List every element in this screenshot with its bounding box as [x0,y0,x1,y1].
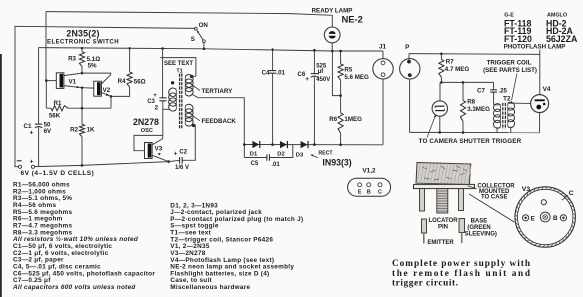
label R4 56ohm [118,78,146,85]
svg-text:V3: V3 [155,145,163,152]
wire V1 emitter to V2 base [82,87,94,89]
svg-text:R6: R6 [329,116,337,123]
wire battery-positive riser with C1 [38,48,40,167]
svg-text:D1: D1 [250,152,258,158]
jack J1 [373,51,393,145]
resistor R3 [79,47,84,73]
svg-text:G-E: G-E [504,12,514,18]
capacitor C4 [269,48,276,144]
pointer tertiary [189,83,201,91]
svg-text:R4: R4 [118,78,126,85]
svg-text:PHOTOFLASH LAMP: PHOTOFLASH LAMP [504,43,566,50]
neon trigger lamp [432,82,447,132]
label V3 oscillator [155,145,163,152]
svg-text:All capacitors 600 volts unles: All capacitors 600 volts unless noted [12,284,136,291]
neon lamp NE-2 [324,15,340,51]
svg-text:6V: 6V [44,128,52,135]
wire V2 emitter down [110,96,112,108]
svg-text:NE-2: NE-2 [342,14,363,25]
label SEE TEXT [164,61,193,67]
svg-text:(GREEN: (GREEN [467,225,490,231]
svg-text:E: E [358,190,362,196]
wire left battery-negative rail [15,26,194,166]
svg-text:PIN: PIN [438,225,448,231]
svg-text:FEEDBACK: FEEDBACK [202,118,237,125]
power transistor mounting flange [414,184,475,188]
svg-text:1/6 V: 1/6 V [175,165,189,171]
wire bottom battery bus [35,162,169,167]
label R7 4.7 MEG [445,58,470,73]
svg-text:+: + [30,158,34,165]
svg-text:SLEEVING): SLEEVING) [465,232,497,238]
base pin detail [459,219,465,244]
label BASE GREEN SLEEVING [465,219,497,238]
svg-text:B: B [367,190,371,196]
svg-text:R8: R8 [467,98,475,105]
diode D2 [280,141,287,148]
svg-text:TERTIARY: TERTIARY [202,88,234,95]
svg-text:All resistors ½-watt 10% unles: All resistors ½-watt 10% unless noted [12,235,139,243]
resistor R8 [460,81,465,134]
V3 bottom view case circle [515,187,575,247]
svg-text:AMGLO: AMGLO [547,12,567,18]
pointer to trigger contact [427,115,436,138]
label RECT [318,151,333,157]
label EMITTER [427,240,454,246]
capacitor C3 [159,98,166,101]
resistor R4 [110,47,133,98]
svg-text:(SEE PARTS LIST): (SEE PARTS LIST) [483,67,537,74]
label T1 [176,69,182,75]
resistor R6 [338,96,343,146]
label R1 56K [49,100,62,120]
label C1 50 6V + [24,122,53,137]
socket pin B [367,183,371,196]
svg-text:E: E [531,215,536,222]
transistor V1 [46,73,82,89]
wire V1 base drop from top rail [45,12,47,81]
pointer trigger coil [511,74,517,104]
label TO CAMERA SHUTTER TRIGGER [419,138,522,145]
svg-text:D3: D3 [296,153,304,159]
node V3 emitter junction [167,160,170,163]
transformer T1 phasing dot feedback [192,124,195,127]
label C6 525uf 450V + [297,64,330,84]
caption line 3 [392,278,458,288]
label SEE PARTS LIST [483,67,537,74]
caption line 1 [392,259,531,269]
svg-text:56K: 56K [49,113,61,120]
svg-text:5.6 MEG: 5.6 MEG [344,74,369,81]
power transistor case body [416,163,471,185]
label TERTIARY [202,88,234,95]
svg-text:2N35(2): 2N35(2) [66,28,99,38]
diode D1 [252,141,259,148]
svg-text:C7: C7 [477,88,485,95]
wire remote top rail [409,53,540,56]
wire rectifier bus [243,143,383,146]
label C2 + 1/6V [174,150,189,171]
V3 bottom view emitter pin [523,215,536,223]
V3 bottom view base pin [553,215,567,223]
transistor V3 [134,135,169,161]
power transistor left pin [420,189,425,211]
flash lamp V4 [531,50,549,133]
diode D3 [301,141,308,148]
svg-text:.25: .25 [498,88,507,95]
label FT-120 56J2ZA [504,34,578,44]
svg-text:C: C [569,190,574,197]
svg-text:R1: R1 [54,100,62,107]
battery terminal + (plus) [30,158,35,168]
pointer collector to case [468,186,477,189]
label D1 [250,152,258,158]
svg-text:V2: V2 [103,87,111,94]
transformer T1 feedback winding [185,104,193,126]
label R6 1MEG [329,116,362,123]
wire V1 emitter down to R1 line [81,87,83,109]
svg-text:TO CAMERA SHUTTER TRIGGER: TO CAMERA SHUTTER TRIGGER [419,138,522,145]
label C collector [562,190,574,200]
svg-text:+: + [29,130,33,137]
svg-text:B: B [553,215,558,222]
node R1/R2 junction [81,107,84,110]
label COLLECTOR MOUNTED TO CASE [477,183,515,200]
transformer T1 primary winding [169,88,177,111]
svg-text:Complete power supply with: Complete power supply with [392,259,531,269]
power transistor right pin [459,189,464,211]
node switch to rail [203,48,206,51]
trigger coil T2 primary winding [494,104,501,133]
svg-text:ON: ON [199,22,209,29]
node R5/R6 junction [339,94,342,97]
node C4 junction [271,143,274,146]
capacitor C1 [35,124,42,128]
resistor R5 [338,50,343,96]
emitter pin detail [422,219,427,244]
pointer to V3 bottom view [469,194,515,222]
label J1 [379,44,387,51]
svg-text:+: + [153,92,157,99]
caption line 2 [392,269,531,279]
resistor R1 [46,81,111,111]
label LOCATOR PIN [428,218,458,230]
label FT-119 HD-2A [504,26,574,36]
label FT-118 HD-2 [504,19,567,29]
svg-text:+: + [174,150,178,157]
svg-text:T2: T2 [503,95,511,102]
svg-text:TRIGGER COIL: TRIGGER COIL [487,59,532,66]
svg-text:V4: V4 [543,86,551,93]
label V2 [103,87,111,94]
socket pin C [378,183,382,196]
plug P [400,54,420,133]
node V1 base / R1 junction [45,79,48,82]
label IN93(3) [322,157,351,167]
label G-E [504,12,514,18]
parts list right column [170,202,303,291]
label PHOTOFLASH LAMP [504,43,566,50]
label C3 + 2 [147,92,158,111]
svg-text:1K: 1K [87,127,95,134]
wire remote bottom bus [410,131,540,133]
wire NE-2 sense line to R5/R6 junction [332,51,340,96]
svg-text:BASE: BASE [471,219,488,225]
transformer T1 core [180,74,182,130]
svg-text:.01: .01 [276,70,285,77]
svg-text:450V: 450V [316,77,330,83]
svg-text:μf: μf [318,69,325,75]
svg-text:V1: V1 [69,79,77,86]
wire tertiary output [192,94,245,158]
label ELECTRONIC SWITCH [47,40,119,46]
svg-text:P: P [405,44,410,51]
svg-text:56Ω: 56Ω [134,78,146,85]
label C4 .01 [262,70,286,77]
label P [405,44,410,51]
svg-text:1MEG: 1MEG [344,116,362,123]
wire remote mid rail [440,81,494,83]
capacitor C6 [311,49,318,146]
capacitor C7 [490,82,497,104]
parts list left column [12,182,155,291]
transformer T1 phasing dot tertiary [190,75,193,78]
label V1,2 [362,168,376,175]
svg-text:D2: D2 [277,152,284,158]
label ON [199,22,209,29]
svg-text:5%: 5% [88,62,97,69]
label C7 .25 [477,88,508,95]
label TRIGGER COIL [487,59,532,66]
svg-text:R5: R5 [344,67,352,74]
label 2N35(2) [66,28,99,38]
svg-text:S: S [191,36,195,43]
socket V1,2 outline [348,178,391,196]
wire C3 feed down [162,58,164,98]
label V3 bottom view [522,186,531,193]
node neon lamp to bus [439,131,442,134]
pointer to D3 [311,155,319,158]
svg-text:Miscellaneous hardware: Miscellaneous hardware [170,284,250,291]
svg-text:OSC: OSC [141,128,153,134]
svg-text:ELECTRONIC SWITCH: ELECTRONIC SWITCH [47,40,119,46]
resistor R7 [439,53,444,83]
capacitor C2 [169,125,196,163]
svg-text:R3: R3 [68,56,76,63]
node R7 bottom junction [440,81,443,84]
V3 bottom view locator hole [541,200,546,205]
label NE-2 [342,14,363,25]
switch S [194,27,205,48]
wire T1 top detour to tertiary [160,58,196,77]
transformer T1 phasing dot primary [171,81,174,84]
svg-text:C2: C2 [179,150,187,156]
label R5 5.6 MEG [344,67,369,81]
battery label 6V [21,170,95,177]
svg-text:C4: C4 [262,70,270,77]
svg-text:SEE TEXT: SEE TEXT [164,61,193,67]
power transistor locator stud [437,189,448,213]
svg-text:V3: V3 [522,186,531,193]
transformer T1 tertiary winding [185,75,196,96]
trigger coil T2 core [503,103,506,129]
svg-text:V1,2: V1,2 [362,168,376,175]
label R8 3.3MEG [467,98,490,112]
pointer feedback [189,112,200,120]
label C5 .01 [251,161,281,168]
svg-text:C5: C5 [251,161,259,167]
V3 bottom view center boss [540,212,550,222]
label T2 [503,95,511,102]
svg-text:3.3MEG: 3.3MEG [467,106,490,113]
svg-text:LOCATOR: LOCATOR [428,218,458,224]
label V1 [69,79,77,86]
svg-text:IN93(3): IN93(3) [322,157,351,167]
svg-text:.01: .01 [271,162,280,168]
svg-text:the remote flash unit and: the remote flash unit and [392,269,531,279]
svg-text:EMITTER: EMITTER [427,240,454,246]
transistor V2 [82,73,111,96]
capacitor C5 [244,145,292,161]
label D2 [277,152,284,158]
node NE-2 to bus [331,50,334,53]
socket pin E [358,183,362,196]
label R3 5.1ohm 5% [68,56,100,70]
svg-text:6V (4–1.5V D CELLS): 6V (4–1.5V D CELLS) [21,170,95,177]
resistor R2 [79,108,84,167]
svg-text:TO CASE: TO CASE [481,194,508,200]
svg-text:trigger circuit.: trigger circuit. [392,278,458,288]
label D3 [296,153,304,159]
label S [191,36,195,43]
battery terminal - (minus) [17,161,22,169]
label OSC [141,128,153,134]
label READY LAMP [312,7,353,14]
wire top rail (V1 base feed to ready lamp) [46,12,332,16]
svg-text:+: + [305,76,309,83]
label V4 [543,86,551,93]
page edge (left scan border) [0,54,2,297]
svg-text:RECT: RECT [318,151,333,157]
svg-text:J1: J1 [379,44,387,51]
label R2 1K [70,126,95,133]
label 2N278 [133,117,159,127]
svg-text:2N278: 2N278 [133,117,159,127]
label FEEDBACK [202,118,237,125]
trigger coil T2 secondary winding [508,102,531,132]
label AMGLO [547,12,567,18]
svg-text:C3: C3 [147,99,155,105]
svg-text:4.7 MEG: 4.7 MEG [445,66,470,73]
wire primary bottom tap [163,108,170,110]
svg-text:C: C [378,190,382,196]
wire mid rail (switched bus) [39,48,383,51]
node V1/V2 collectors junction [81,72,84,75]
svg-text:R2: R2 [70,126,78,133]
svg-text:R7: R7 [446,58,454,65]
wire C3 to V3 collector [162,101,164,139]
wire T1 feed from rail [161,47,164,57]
